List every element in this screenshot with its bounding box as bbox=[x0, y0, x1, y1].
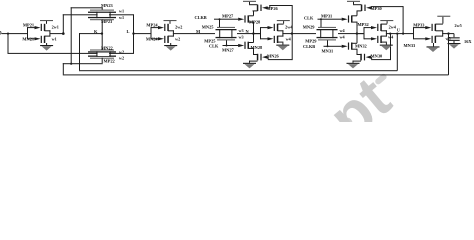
transmission gate TG-MN29-MP29 PMOS channel bbox=[317, 37, 338, 38]
wire CLKB slave bbox=[324, 46, 342, 47]
wire node L to inverter2 bbox=[133, 33, 151, 34]
transmission gate MP23 gate bar bbox=[90, 19, 114, 20]
load capacitor stem bottom bbox=[454, 41, 455, 43]
svg-text:CLKB: CLKB bbox=[303, 44, 315, 49]
transmission gate MN23 gate bar bbox=[90, 10, 114, 11]
svg-text:2w5: 2w5 bbox=[455, 23, 462, 28]
MN31 source lead bbox=[352, 49, 357, 50]
transistor MP30 source lead bbox=[353, 4, 362, 5]
wire MN27 source down bbox=[253, 48, 254, 55]
TG-MN25-MP25 left source stub bbox=[219, 29, 220, 38]
wire TG2 out to node N bbox=[237, 33, 261, 34]
svg-text:MP31: MP31 bbox=[321, 13, 332, 18]
svg-text:MN33: MN33 bbox=[404, 43, 417, 48]
MP28 VDD stem bbox=[283, 21, 284, 24]
svg-text:w4: w4 bbox=[388, 34, 394, 39]
junction feedback bbox=[70, 63, 72, 65]
junction inverter1 output bbox=[62, 32, 65, 35]
junction node U a bbox=[389, 33, 391, 35]
svg-text:MN31: MN31 bbox=[322, 49, 334, 54]
wire MN26 gate jog bbox=[268, 57, 269, 59]
transistor MP21 gate arrow bbox=[35, 26, 41, 29]
wire node S to inverter4 bbox=[357, 33, 365, 34]
transistor MP26 channel bbox=[257, 5, 259, 11]
svg-text:MN28: MN28 bbox=[251, 45, 264, 50]
svg-text:w4: w4 bbox=[286, 36, 292, 41]
transistor MP27 channel bbox=[248, 15, 250, 22]
MN31 drain lead bbox=[352, 43, 357, 44]
inverter4 output rail bbox=[386, 30, 387, 36]
wire input D bbox=[2, 33, 28, 34]
MP32 VDD stem bbox=[387, 21, 388, 24]
svg-text:w3: w3 bbox=[239, 35, 244, 40]
wire MP27 drain to node N bbox=[253, 22, 254, 34]
transmission gate TG-MN29-MP29 PMOS gate bar bbox=[318, 39, 336, 40]
U-INV2 PMOS gate stub bbox=[151, 27, 158, 28]
transistor MP28 gate bar bbox=[274, 24, 275, 31]
inverter U-INV2 input gate rail bbox=[151, 27, 152, 39]
junction node K bbox=[101, 32, 103, 34]
transistor MN32 gate bar bbox=[377, 36, 378, 43]
transistor MP33 gate bar bbox=[432, 24, 433, 31]
transistor MP27 gate bar bbox=[244, 15, 245, 22]
junction CLK stub bbox=[226, 45, 228, 47]
svg-text:MN25: MN25 bbox=[202, 25, 215, 30]
ground below U-INV2 bbox=[164, 45, 177, 46]
svg-text:2w2: 2w2 bbox=[175, 24, 182, 29]
svg-text:MN23: MN23 bbox=[101, 3, 114, 8]
transistor MN21 channel bbox=[44, 36, 46, 43]
MN32 drain lead bbox=[381, 36, 387, 37]
wire CLK bbox=[223, 45, 239, 46]
MN21 drain lead bbox=[44, 36, 50, 37]
svg-text:w1: w1 bbox=[52, 37, 57, 42]
transistor MP33 gate arrow bbox=[425, 26, 431, 29]
transistor MN28 gate bar bbox=[274, 36, 275, 43]
svg-text:w4: w4 bbox=[340, 28, 346, 33]
wire MN23 gate feedback bbox=[71, 7, 103, 8]
svg-text:MP28: MP28 bbox=[249, 19, 261, 24]
transistor MP24 channel bbox=[167, 24, 169, 31]
transistor MN31 gate arrow bbox=[342, 45, 348, 48]
wire slave keeper gate loop vertical bottom bbox=[390, 34, 391, 61]
wire output Q bbox=[442, 33, 454, 34]
wire CLKB to MN25 gate bbox=[219, 19, 220, 27]
transmission gate MN22 channel bbox=[88, 51, 116, 52]
transistor MN31 channel bbox=[351, 43, 353, 50]
wire keeper gate loop vertical bbox=[292, 5, 293, 60]
U-INV1 output rail bbox=[49, 30, 50, 36]
transmission gate MP23 channel bbox=[88, 17, 116, 18]
junction node N bbox=[252, 32, 254, 34]
svg-text:MN26: MN26 bbox=[267, 53, 280, 58]
svg-text:MN29: MN29 bbox=[303, 25, 316, 30]
transistor MP26 gate bar bbox=[260, 5, 261, 11]
U-INV2 output rail bbox=[173, 30, 174, 36]
transistor MN24 gate arrow bbox=[158, 37, 164, 40]
wire node S down to MN31 bbox=[357, 34, 358, 44]
junction CLK slave stub bbox=[320, 18, 322, 20]
TG-MN25-MP25 right drain stub bbox=[231, 29, 232, 38]
svg-text:2w1: 2w1 bbox=[52, 24, 59, 29]
transistor MN32 channel bbox=[380, 36, 382, 43]
transistor MN27 gate bar bbox=[244, 42, 245, 49]
svg-text:w1: w1 bbox=[119, 15, 124, 20]
transistor MP26 source lead bbox=[249, 4, 258, 5]
junction node U b bbox=[396, 33, 398, 35]
svg-text:MP26: MP26 bbox=[267, 6, 279, 11]
VDD bar above MP28 bbox=[277, 20, 290, 21]
wire feedback bottom long 1 bbox=[79, 70, 397, 71]
wire inverter2 output to node M bbox=[173, 33, 215, 34]
MP21 drain lead bbox=[44, 30, 50, 31]
MP33 VDD stem bbox=[442, 17, 443, 24]
svg-text:MN30: MN30 bbox=[371, 53, 384, 58]
MN27 source lead bbox=[249, 48, 254, 49]
transmission gate MP22 channel bbox=[88, 56, 116, 57]
transmission gate TG-MN29-MP29 NMOS channel bbox=[317, 29, 338, 30]
transmission gate MN22/MP22 body interior bbox=[98, 53, 109, 57]
MN26 ground stem bbox=[249, 61, 250, 63]
MN21 source lead to ground bbox=[46, 43, 47, 45]
wire top transmission gate through-line bbox=[63, 14, 134, 15]
wire up from inverter1 output bbox=[63, 14, 64, 33]
junction node L bbox=[132, 32, 134, 34]
node D branch junction bbox=[7, 33, 9, 35]
wire feedback bottom long 2 bbox=[63, 74, 449, 75]
transistor MN30 gate bar bbox=[364, 54, 365, 61]
MP32 gate stub bbox=[364, 27, 371, 28]
ground below inverter3 bbox=[276, 45, 289, 46]
wire slave keeper gate bottom horizontal bbox=[371, 59, 390, 60]
bottom gate left stub bbox=[96, 51, 97, 57]
transistor MP26 drain lead bbox=[253, 10, 258, 11]
inverter4 input gate rail bbox=[364, 27, 365, 39]
load capacitor bottom plate bbox=[448, 40, 460, 41]
ground below inverter5 bbox=[427, 46, 440, 47]
MN24 drain lead bbox=[168, 36, 174, 37]
svg-text:MP29: MP29 bbox=[305, 39, 317, 44]
transistor MN30 source lead bbox=[357, 54, 362, 55]
transistor MN30 channel bbox=[360, 54, 362, 61]
inverter3 output rail bbox=[282, 30, 283, 36]
transistor MN26 gate bar bbox=[260, 54, 261, 61]
svg-text:MP24: MP24 bbox=[146, 22, 158, 27]
transmission gate MP22 gate bar bbox=[90, 58, 114, 59]
junction CLKB slave stub bbox=[327, 45, 329, 47]
MN28 gate stub bbox=[261, 38, 268, 39]
svg-text:U: U bbox=[397, 29, 400, 33]
ground below MN30 bbox=[347, 63, 360, 64]
MN32 gate stub bbox=[364, 38, 371, 39]
wire CLKB to MP29 gate bbox=[327, 40, 328, 46]
transistor MP28 gate arrow bbox=[268, 26, 274, 29]
wire MP26 drain down bbox=[253, 11, 254, 16]
MP24 source lead to VDD bbox=[170, 21, 171, 24]
load capacitor stem top bbox=[454, 34, 455, 38]
svg-text:CLK: CLK bbox=[304, 15, 314, 20]
transistor MP30 drain lead bbox=[357, 10, 362, 11]
svg-text:2w4: 2w4 bbox=[389, 25, 397, 30]
transistor MN33 channel bbox=[435, 36, 437, 43]
inverter5 input gate rail bbox=[413, 27, 414, 39]
wire CLKB bbox=[214, 19, 238, 20]
wire CLK to MN29 gate bbox=[321, 19, 322, 27]
wire node K horizontal bbox=[79, 33, 102, 34]
load capacitor top plate bbox=[448, 37, 460, 38]
transmission gate TG-MN25-MP25 PMOS gate bar bbox=[217, 39, 235, 40]
transistor MN26 source lead bbox=[253, 54, 258, 55]
transistor MP31 gate arrow bbox=[342, 18, 348, 21]
transistor MP24 gate bar bbox=[164, 24, 165, 31]
wire inverter3 output node P bbox=[282, 33, 316, 34]
ground below inverter4 bbox=[380, 45, 393, 46]
transistor MP26 gate arrow bbox=[262, 6, 268, 9]
MN22 gate lead up bbox=[102, 49, 103, 52]
svg-text:w1: w1 bbox=[119, 9, 124, 14]
MN26 drain lead to ground bbox=[249, 61, 258, 62]
U-INV1 PMOS gate stub bbox=[28, 27, 35, 28]
wire slave keeper gate top horizontal bbox=[371, 6, 403, 7]
svg-text:MN32: MN32 bbox=[355, 43, 367, 48]
MN33 gate stub bbox=[414, 38, 426, 39]
wire slave keeper gate loop vertical top bbox=[403, 6, 404, 33]
wire keeper gate bottom horizontal bbox=[268, 59, 293, 60]
svg-text:CLKB: CLKB bbox=[195, 15, 207, 20]
transistor MN28 channel bbox=[277, 36, 279, 43]
junction node S bbox=[356, 32, 358, 34]
svg-text:MP22: MP22 bbox=[104, 59, 115, 64]
transistor MP30 gate bar bbox=[364, 5, 365, 11]
wire feedback vertical left bbox=[71, 7, 72, 63]
transistor MP30 channel bbox=[361, 5, 363, 11]
ground below U-INV1 bbox=[40, 45, 53, 46]
svg-text:MP23: MP23 bbox=[101, 19, 113, 24]
TG-MN29-MP29 left source stub bbox=[320, 29, 321, 38]
wire node L vertical bbox=[133, 14, 134, 54]
MP26 VDD stem bbox=[249, 2, 250, 4]
svg-text:MP21: MP21 bbox=[23, 22, 34, 27]
transistor MN31 gate bar bbox=[348, 43, 349, 50]
U-INV2 NMOS gate stub bbox=[151, 38, 158, 39]
MN27 drain lead bbox=[249, 42, 254, 43]
svg-text:MP33: MP33 bbox=[413, 22, 425, 27]
transistor MN33 gate bar bbox=[432, 36, 433, 43]
wire node K down left bbox=[79, 33, 80, 70]
MP32 source lead right bbox=[381, 24, 387, 25]
wire inverter1 output to node K area bbox=[50, 33, 64, 34]
svg-text:w2: w2 bbox=[119, 49, 124, 54]
svg-text:MP27: MP27 bbox=[222, 13, 234, 18]
inverter U-INV1 input gate rail bbox=[27, 27, 28, 39]
wire feedback long1 right vertical bbox=[397, 34, 398, 71]
transistor MP27 gate arrow bbox=[238, 18, 244, 21]
VDD bar above MP33 bbox=[437, 16, 450, 17]
watermark manuscript partial letter bbox=[333, 116, 354, 136]
transistor MN21 gate arrow bbox=[35, 37, 41, 40]
transistor MN27 gate arrow bbox=[238, 44, 244, 47]
transistor MP33 channel bbox=[435, 24, 437, 31]
svg-text:2w4: 2w4 bbox=[285, 25, 293, 30]
MP21 source lead to VDD bbox=[46, 21, 47, 24]
VDD rail bar above MP21 bbox=[40, 20, 53, 21]
MP28 drain lead bbox=[277, 30, 283, 31]
MN30 ground stem bbox=[353, 61, 354, 63]
transistor MN28 gate arrow bbox=[268, 37, 274, 40]
svg-text:MN24: MN24 bbox=[146, 36, 159, 41]
MN23 gate lead up bbox=[102, 7, 103, 9]
inverter5 output rail bbox=[442, 30, 443, 36]
inverter3 input gate rail bbox=[260, 27, 261, 39]
wire MN30 gate jog bbox=[371, 57, 372, 59]
MN28 source lead to ground bbox=[277, 42, 283, 43]
svg-text:MN21: MN21 bbox=[22, 36, 34, 41]
transistor MP32 channel bbox=[380, 24, 382, 31]
wire CLK to MP25 gate bbox=[226, 40, 227, 45]
MN32 source lead to ground bbox=[381, 42, 387, 43]
MP28 gate stub bbox=[261, 27, 268, 28]
transistor MP32 gate bar bbox=[377, 24, 378, 31]
wire D branch down bbox=[8, 33, 9, 53]
wire node K vertical bbox=[102, 22, 103, 50]
transistor MP31 gate bar bbox=[348, 15, 349, 22]
transmission gate TG-MN25-MP25 NMOS channel bbox=[216, 29, 237, 30]
MP32 drain lead bbox=[381, 30, 387, 31]
ground below load capacitor bbox=[448, 43, 461, 44]
MP27 drain lead bbox=[249, 22, 254, 23]
transistor MP31 channel bbox=[351, 15, 353, 22]
transistor MP30 gate arrow bbox=[366, 6, 372, 9]
wire MP31 drain to node S bbox=[357, 22, 358, 34]
MP28 source lead right bbox=[277, 24, 283, 25]
MP33 drain lead bbox=[436, 30, 443, 31]
transmission gate TG-MN29-MP29 body interior bbox=[321, 30, 332, 36]
top gate left stub bbox=[96, 12, 97, 19]
MP22 gate lead down bbox=[102, 58, 103, 64]
transistor MN24 channel bbox=[167, 36, 169, 43]
MN28 drain lead bbox=[277, 36, 283, 37]
wire keeper gate top horizontal bbox=[269, 5, 292, 6]
svg-text:L: L bbox=[127, 29, 130, 34]
ground below MN26 bbox=[243, 63, 256, 64]
MN30 drain lead to ground bbox=[353, 61, 362, 62]
transistor MN26 gate arrow bbox=[262, 56, 268, 59]
transistor MN32 gate arrow bbox=[371, 37, 377, 40]
MP31 drain lead bbox=[352, 22, 357, 23]
VDD rail bar above MP24 bbox=[164, 20, 177, 21]
junction CLKB stub bbox=[219, 18, 221, 20]
transmission gate MN23 channel bbox=[88, 12, 116, 13]
transistor MN26 channel bbox=[257, 54, 259, 61]
transistor MN24 gate bar bbox=[164, 36, 165, 43]
bottom gate right stub bbox=[110, 51, 111, 57]
svg-text:w4: w4 bbox=[340, 35, 346, 40]
transistor MP28 channel bbox=[277, 24, 279, 31]
MP30 VDD stem bbox=[353, 2, 354, 4]
wire node N to inverter3 bbox=[253, 33, 261, 34]
svg-text:w2: w2 bbox=[119, 55, 124, 60]
wire MP30 drain down bbox=[357, 11, 358, 16]
transistor MP24 gate arrow bbox=[158, 26, 164, 29]
transistor MN21 gate bar bbox=[41, 36, 42, 43]
MP33 source lead right bbox=[436, 24, 443, 25]
TG-MN29-MP29 right drain stub bbox=[332, 29, 333, 38]
transistor MP32 gate arrow bbox=[371, 26, 377, 29]
junction node P bbox=[291, 32, 293, 34]
wire MP30 gate jog bbox=[370, 5, 372, 7]
transistor MN27 channel bbox=[248, 42, 250, 49]
wire Q feedback down bbox=[448, 34, 449, 75]
transmission gate MN23/MP23 body interior bbox=[98, 13, 109, 17]
MP27 source lead bbox=[249, 14, 254, 17]
wire MP26 gate jog bbox=[269, 5, 270, 8]
wire D branch to bottom transmission gate bbox=[8, 53, 134, 54]
transistor MN30 gate arrow bbox=[366, 56, 372, 59]
transmission gate TG-MN25-MP25 NMOS gate bar bbox=[217, 27, 235, 28]
transmission gate TG-MN29-MP29 NMOS gate bar bbox=[318, 27, 336, 28]
wire MP22 gate feedback horizontal bbox=[63, 62, 103, 65]
transistor MN33 gate arrow bbox=[425, 37, 431, 40]
svg-text:w2: w2 bbox=[175, 37, 180, 42]
wire TG3 out to node S bbox=[338, 33, 364, 34]
svg-text:w3: w3 bbox=[239, 28, 244, 33]
svg-text:CLK: CLK bbox=[209, 43, 219, 48]
transistor MP21 gate bar bbox=[41, 24, 42, 31]
transmission gate TG-MN25-MP25 PMOS channel bbox=[216, 37, 237, 38]
MN33 drain lead bbox=[436, 36, 443, 37]
wire CLK slave bbox=[318, 19, 342, 20]
transistor MP21 channel bbox=[44, 24, 46, 31]
svg-text:MN27: MN27 bbox=[222, 47, 235, 52]
MN33 source lead to ground bbox=[433, 43, 434, 46]
transmission gate MN22 gate bar bbox=[90, 50, 114, 51]
U-INV1 NMOS gate stub bbox=[28, 38, 35, 39]
MN24 source lead to ground bbox=[170, 43, 171, 45]
junction node U c bbox=[402, 33, 404, 35]
MP24 drain lead bbox=[168, 30, 174, 31]
VDD bar above MP30 bbox=[347, 1, 360, 2]
wire node N down to MN27 bbox=[253, 34, 254, 43]
VDD bar above MP32 bbox=[380, 20, 393, 21]
svg-text:MP32: MP32 bbox=[358, 22, 369, 27]
junction Q feedback bbox=[447, 32, 449, 34]
wire inverter4 output node U bbox=[386, 33, 414, 34]
MP23 gate lead down bbox=[102, 19, 103, 21]
VDD bar above MP26 bbox=[243, 1, 256, 2]
watermark manuscript i dot bbox=[374, 73, 388, 86]
MP31 source lead bbox=[352, 14, 357, 17]
wire MN31 source down bbox=[357, 49, 358, 55]
MP33 gate stub bbox=[414, 27, 426, 28]
wire feedback down left bbox=[63, 63, 64, 74]
top gate right stub bbox=[110, 12, 111, 19]
svg-text:MN22: MN22 bbox=[101, 46, 113, 51]
transmission gate TG-MN25-MP25 body interior bbox=[220, 30, 231, 36]
svg-text:16X: 16X bbox=[464, 39, 472, 44]
